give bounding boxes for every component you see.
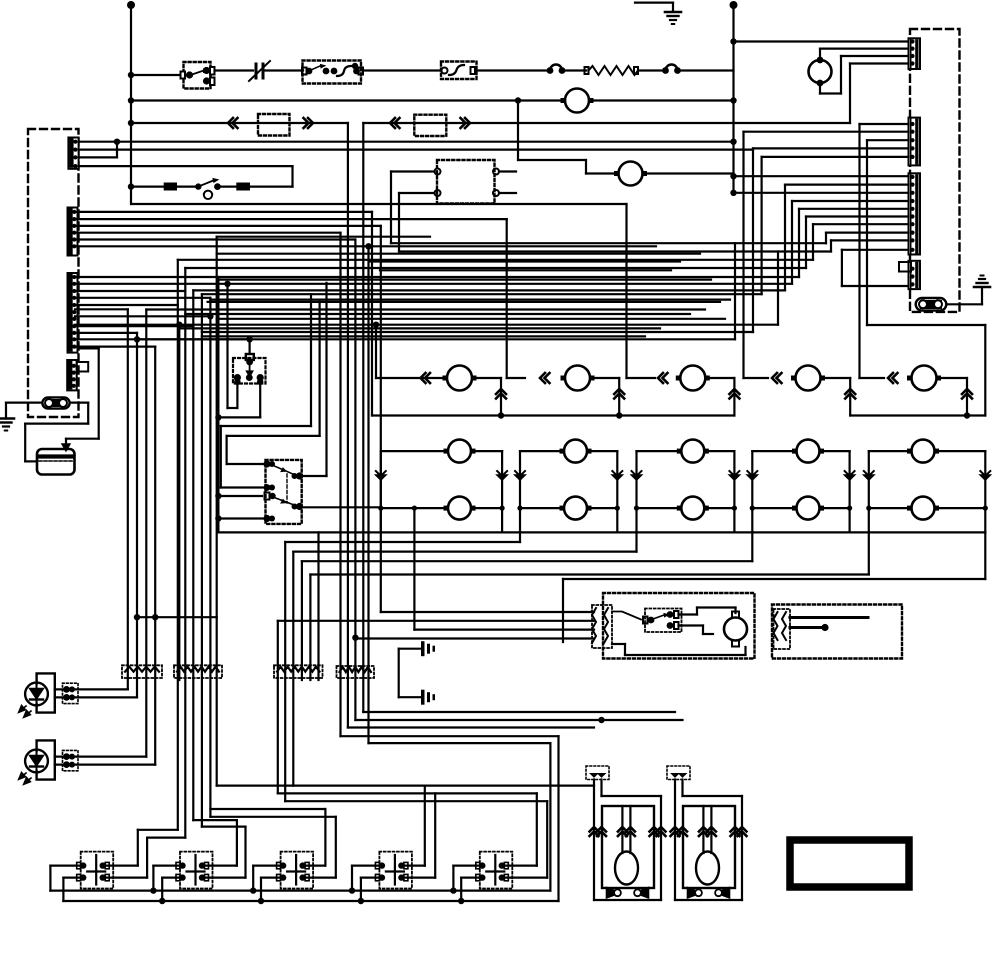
connector J1 xyxy=(68,138,78,169)
wire B5 xyxy=(762,156,909,158)
fuse F2 xyxy=(236,183,250,191)
wire J1-3 jumper xyxy=(79,156,117,158)
cell5 arrows xyxy=(864,475,874,480)
wire N299 xyxy=(210,299,730,301)
fusible link F4 xyxy=(662,67,669,74)
wire FL1 pin2 xyxy=(399,192,435,194)
splice column IG1 xyxy=(592,605,612,648)
lamp R2-4t xyxy=(797,440,820,463)
wire N283 J3-2 xyxy=(75,283,792,285)
wire N574 xyxy=(310,573,868,575)
wire lamp4 out xyxy=(825,377,851,379)
fuse F1 xyxy=(164,183,177,191)
lamp L7 xyxy=(619,162,643,186)
horn H1 outer loop xyxy=(593,780,595,901)
wire lamp L7 out xyxy=(643,172,734,174)
wire W71 e xyxy=(562,69,586,71)
lamp R1-5 xyxy=(912,366,937,391)
wire N579 xyxy=(563,578,985,580)
drop V355 xyxy=(354,240,356,721)
connector JB xyxy=(909,118,921,166)
wire N309 J3-6 xyxy=(75,308,128,310)
wire lamp5 out xyxy=(941,377,968,379)
wire C1 from rail xyxy=(734,175,909,177)
arrow up R1-1 xyxy=(496,389,506,399)
connector JA xyxy=(909,38,921,69)
wire W71 f xyxy=(638,69,664,71)
drop V293 splice3 xyxy=(292,552,294,786)
wire B3 drop xyxy=(866,140,868,325)
drop V380 long xyxy=(380,226,382,612)
drop V155 to LED2 xyxy=(154,347,156,765)
wire B1 drop xyxy=(858,124,860,378)
lamp R2-5t xyxy=(912,440,935,463)
switch SW5 pads xyxy=(479,862,485,868)
lamp R2-2t xyxy=(564,440,587,463)
LED D1 body xyxy=(25,683,48,706)
battery BAT1 xyxy=(37,449,75,475)
ground G1 left xyxy=(0,417,14,420)
stub FL1 right1 xyxy=(499,170,516,172)
ignition module IG2 dashed box xyxy=(772,605,902,659)
wire lamp5 feed xyxy=(860,377,885,379)
arrow lamp2 xyxy=(540,373,550,383)
drop V193 xyxy=(192,290,194,820)
bus feeds SW5 xyxy=(450,887,456,893)
wire W71 g xyxy=(678,69,734,71)
drop V363 splice4 xyxy=(362,123,364,712)
wire lamp3 feed xyxy=(627,377,656,379)
cell1 bottom wire xyxy=(381,507,443,509)
cell1 top wire xyxy=(381,450,443,452)
horn H2 oval xyxy=(696,852,719,885)
wire P5 to ground xyxy=(948,303,983,305)
wire N305 J3-5 xyxy=(75,304,178,306)
drop V277 splice3 xyxy=(277,621,279,794)
wire P4 to ground xyxy=(6,402,41,404)
drop V343 splice4 xyxy=(347,123,349,728)
horn H2 cones xyxy=(688,888,695,898)
wire K1 right pin xyxy=(259,382,261,418)
wire N332 J3-10 xyxy=(75,332,137,334)
staircase Y801 xyxy=(285,800,547,802)
cell4 walls xyxy=(751,451,753,532)
switch SW2 pads xyxy=(179,862,185,868)
wire rail segment 192 xyxy=(730,190,736,196)
wire N316 J3-7 xyxy=(75,315,210,317)
SW3 right links xyxy=(303,864,326,866)
LED D1 pin connector xyxy=(63,683,79,703)
wire N261 xyxy=(370,260,680,262)
lamp R2-1b xyxy=(448,497,471,520)
flasher FL1 dashed box xyxy=(437,160,495,204)
ground link xyxy=(398,649,400,698)
wrap to bus2 xyxy=(341,735,559,737)
wire D2 b xyxy=(55,763,155,765)
connector J4 xyxy=(67,360,77,390)
drop V318 splice3 xyxy=(317,532,319,680)
wrap to bus1 xyxy=(369,742,551,744)
wire N268 xyxy=(185,267,806,269)
wire N339b xyxy=(137,338,735,340)
wire N318 xyxy=(217,318,725,320)
staircase Y793 xyxy=(278,792,537,794)
LED D2 bracket xyxy=(37,740,55,779)
cell1 bottom feed xyxy=(413,508,415,629)
wire N551 xyxy=(293,550,636,552)
wire N339 J3-11 xyxy=(75,338,250,340)
wire B2 drop xyxy=(742,132,744,378)
wire N297 J3-4 xyxy=(75,297,210,299)
wire N314 xyxy=(185,313,690,315)
cell1 arrows xyxy=(376,475,386,480)
ground stub GH1 xyxy=(399,648,420,650)
K2 levers xyxy=(272,465,294,475)
wire N246 ext xyxy=(369,245,657,247)
horn H1 cones xyxy=(607,888,614,898)
IG1 internal contact set xyxy=(645,609,682,633)
drop V137 to LED1 xyxy=(136,333,138,698)
LED D2 body xyxy=(25,750,48,773)
inline connector P4 oval xyxy=(42,397,69,408)
SW1 right links xyxy=(102,864,137,866)
wire J2-5 xyxy=(75,238,355,240)
wire lamp2 feed xyxy=(507,377,525,379)
wire C2 xyxy=(785,184,909,186)
lamp R2-2b xyxy=(564,497,587,520)
drop V210 xyxy=(209,298,211,817)
switch SW4 pads xyxy=(379,862,385,868)
arrow into battery xyxy=(65,439,67,446)
LED D1 bracket xyxy=(37,673,55,712)
cell2 walls xyxy=(519,451,521,532)
wire N324 J3-8 xyxy=(75,324,778,326)
horn H1 arrows xyxy=(590,827,599,836)
wire B5 drop xyxy=(760,157,762,294)
drop V201 xyxy=(201,294,203,826)
staircase Y820 xyxy=(193,819,237,821)
wire C5 xyxy=(799,208,909,210)
horn H1 body xyxy=(602,806,654,888)
wire lamp4 feed xyxy=(744,377,769,379)
cell5 top wire xyxy=(869,450,907,452)
wire J1-1 xyxy=(79,141,117,143)
wire W123 seg2 xyxy=(363,122,850,124)
wire J2-3 xyxy=(75,225,381,227)
switch S1 ignition (dashed box) xyxy=(303,61,362,84)
inline connector P5 oval xyxy=(916,298,947,311)
cell5 bottom wire xyxy=(869,507,907,509)
splice SP4 xyxy=(337,666,375,678)
wire K2 pin4 xyxy=(218,517,263,519)
switch SW5 cross xyxy=(494,855,496,885)
bus BT1 xyxy=(50,889,550,891)
lamp R1-4 xyxy=(796,366,821,391)
wire C6 xyxy=(806,215,909,217)
wire W100 bus xyxy=(131,99,565,101)
legend box xyxy=(790,840,909,887)
wire P4 to battery loop xyxy=(72,402,89,404)
switch SW3 cross xyxy=(295,855,297,885)
staircase Y826 xyxy=(202,825,246,827)
horn module H2 splice xyxy=(667,766,690,780)
cell3 arrows xyxy=(632,475,642,480)
wire J3 to battery xyxy=(78,347,99,349)
bus feeds SW1 xyxy=(49,866,51,891)
cell3 walls xyxy=(635,451,637,532)
switch SW2 dashed box xyxy=(180,852,213,889)
breaker CB1 (dashed box) xyxy=(441,62,477,80)
wire lamp2 out xyxy=(594,377,619,379)
wire B4 link xyxy=(753,147,909,149)
SW5 right links xyxy=(502,864,537,866)
switch K2 dashed box xyxy=(266,460,302,524)
cell4 arrows xyxy=(747,475,757,480)
wire N204 xyxy=(131,203,626,205)
wire B1 xyxy=(860,123,909,125)
wire N542 xyxy=(285,541,520,543)
wire N253 xyxy=(217,253,700,255)
drop V185 xyxy=(184,268,186,838)
dashed harness box right xyxy=(910,29,960,312)
cell2 bottom wire xyxy=(520,507,559,509)
arrow A3 xyxy=(390,118,400,128)
drop V368 xyxy=(367,246,369,743)
wire N291 J3-3 xyxy=(75,290,185,292)
wire W71 feed xyxy=(131,74,183,76)
connector JD xyxy=(909,261,921,289)
drop V301 splice3 xyxy=(301,561,303,680)
wire N251 xyxy=(399,250,831,252)
resistor R1 ballast xyxy=(585,67,589,74)
bus BT2 xyxy=(63,900,558,902)
wire rail to pin A1 xyxy=(734,40,909,42)
drop V218 xyxy=(217,277,219,532)
ground stub GH2 xyxy=(399,696,420,698)
capacitor C1 noise suppressor xyxy=(255,64,258,78)
cell3 top wire xyxy=(637,450,677,452)
wire W71 c xyxy=(363,69,441,71)
wire S2 out xyxy=(250,186,293,188)
horn H1 oval xyxy=(615,852,638,885)
switch SW4 dashed box xyxy=(379,852,412,889)
wire lamp1 feed xyxy=(375,325,377,378)
drop V310 splice3 xyxy=(309,575,311,681)
relay K1 dashed box xyxy=(233,358,266,384)
wire N332b xyxy=(202,331,753,333)
staircase Y785 xyxy=(217,784,594,786)
wire N617 xyxy=(137,616,217,618)
lamp L6 indicator xyxy=(565,89,589,113)
horn H2 body xyxy=(683,806,735,888)
bus feeds SW2 xyxy=(150,887,156,893)
drop V340 xyxy=(339,233,341,737)
wire M1 top to pin A2 xyxy=(819,49,821,60)
wire K2 right1 xyxy=(303,475,327,477)
wire B3 xyxy=(867,139,909,141)
bus feeds SW4 xyxy=(349,887,355,893)
wire W71 a xyxy=(215,69,254,71)
drop V179 xyxy=(178,325,180,680)
lamp R2-3t xyxy=(681,440,704,463)
splice SP3 xyxy=(274,665,323,678)
lamp R2-1t xyxy=(448,440,471,463)
wire W71 d xyxy=(477,69,549,71)
wire N435 xyxy=(227,435,320,437)
K2 pins xyxy=(263,460,270,467)
wire N328 xyxy=(179,327,660,329)
staircase Y837 xyxy=(147,836,185,838)
splice SP1 xyxy=(122,665,162,678)
inline connector P3 (dashed) xyxy=(414,115,446,136)
dashed harness box left xyxy=(28,129,79,417)
arrow lamp4 xyxy=(772,373,782,383)
wire W71 b xyxy=(264,69,303,71)
switch SW1 cross xyxy=(95,855,97,885)
arrow up R1-5 xyxy=(962,389,972,399)
wire B2 xyxy=(744,131,909,133)
connector J2 xyxy=(68,208,78,256)
SW2 right links xyxy=(202,864,237,866)
cell2 top wire xyxy=(520,450,559,452)
switch SW1 dashed box xyxy=(81,852,114,889)
arrow lamp3 xyxy=(658,373,668,383)
wire W100 b xyxy=(589,99,734,101)
wire lamp3 out xyxy=(709,377,734,379)
wire N290 xyxy=(193,289,785,291)
wire K2 right2 xyxy=(303,506,381,508)
wire lamp L7 feed xyxy=(517,101,519,161)
wire D2 a xyxy=(55,755,147,757)
row2 chain bus xyxy=(218,531,985,533)
drop V127 to LED1 xyxy=(127,309,129,689)
wire N301 xyxy=(208,301,720,303)
lamp R1-1 xyxy=(447,366,472,391)
bus feeds SW3 xyxy=(250,887,256,893)
relay K1 contacts xyxy=(234,374,241,381)
switch SW2 cross xyxy=(194,855,196,885)
wire J1-4 xyxy=(79,165,293,167)
wire FL1 pin1 xyxy=(391,170,435,172)
wire B4 drop xyxy=(752,148,754,332)
LED D1 emission arrows xyxy=(19,706,26,713)
wire IG in2 xyxy=(278,620,594,622)
drop V216 long xyxy=(216,237,218,618)
LED D2 pin connector xyxy=(63,750,79,770)
SW4 right links xyxy=(401,864,424,866)
arrow up R1-3 xyxy=(729,389,739,399)
wire N236 xyxy=(217,236,430,238)
wire N561 xyxy=(302,560,752,562)
horn feeds from splice4 xyxy=(363,711,675,713)
wire C7 xyxy=(813,223,909,225)
drop V216 low xyxy=(216,617,218,785)
wire C8 xyxy=(826,232,909,234)
wire K1 left pin xyxy=(236,382,238,408)
tab JD xyxy=(899,262,911,272)
wire IG in3 xyxy=(414,628,594,630)
tab J4 xyxy=(77,362,89,372)
cell4 bottom wire xyxy=(752,507,791,509)
wire J2-2 xyxy=(75,218,507,220)
row1 bus a xyxy=(372,414,734,416)
connector J3 xyxy=(68,273,78,353)
horn H2 stem xyxy=(702,806,704,853)
wire N243 xyxy=(391,242,826,244)
horn H2 arrows xyxy=(671,827,680,836)
switch SW5 dashed box xyxy=(480,852,513,889)
drop V177 xyxy=(177,260,179,830)
staircase Y809 xyxy=(210,808,325,810)
drop V506 lamp feed xyxy=(506,219,508,378)
lamp R2-3b xyxy=(681,497,704,520)
wire W123 seg1 xyxy=(131,122,348,124)
row1 bus b xyxy=(850,414,985,416)
ground G0 top xyxy=(635,1,673,3)
cell1 walls xyxy=(380,451,382,532)
ignition module IG1 dashed box xyxy=(603,593,755,659)
lamp R2-4b xyxy=(797,497,820,520)
fusible link F3 xyxy=(547,67,554,74)
wire J2-1 xyxy=(75,211,372,213)
arrow A4 xyxy=(461,118,471,128)
switch SW1 pads xyxy=(80,862,86,868)
wire lamp1 out xyxy=(476,377,501,379)
lamp R1-3 xyxy=(680,366,705,391)
riser V778 xyxy=(777,252,779,325)
wire J2-4 xyxy=(75,232,341,234)
power rail node B+ left xyxy=(127,1,135,9)
IG1 coil wiring xyxy=(679,613,698,615)
inline connector P2 (dashed) xyxy=(258,114,290,136)
arrow A1 xyxy=(228,118,238,128)
LED D2 emission arrows xyxy=(19,773,26,780)
arrow up R1-4 xyxy=(845,389,855,399)
drop V146 to LED2 xyxy=(145,310,147,757)
wire N336 xyxy=(202,335,645,337)
drop V626 lamp3 feed xyxy=(625,204,627,378)
stub FL1 right2 xyxy=(499,192,516,194)
cell5 walls xyxy=(868,451,870,532)
IG1 bottom path xyxy=(612,643,625,645)
cell3 bottom wire xyxy=(637,507,677,509)
wire C10 xyxy=(842,249,909,251)
switch SW3 pads xyxy=(280,862,286,868)
switch SW4 cross xyxy=(394,855,396,885)
staircase Y816 xyxy=(210,816,335,818)
wire J2-6 xyxy=(75,245,369,247)
switch SW3 dashed box xyxy=(281,852,314,889)
staircase Y829 xyxy=(138,829,178,831)
wire C4 xyxy=(792,200,909,202)
wire C9 xyxy=(831,239,909,241)
splice SP2 xyxy=(174,665,222,678)
IG2 points bars xyxy=(790,616,868,619)
lamp R2-5b xyxy=(912,497,935,520)
wire N309b xyxy=(146,308,705,310)
arrow lamp5 xyxy=(888,373,898,383)
splice column IG2 xyxy=(774,609,791,649)
wire N259 xyxy=(178,259,813,261)
horn H2 outer loop xyxy=(674,780,676,901)
wire N277 J3-1 xyxy=(75,276,799,278)
wire N326 J3-9 xyxy=(75,325,193,327)
wire D1 b xyxy=(55,696,137,698)
wire W123 riser to pin A4 xyxy=(849,64,851,124)
wire J1-2 / W149 xyxy=(79,149,753,151)
drop V285 splice3 xyxy=(284,542,286,801)
arrow lamp1 xyxy=(421,373,431,383)
